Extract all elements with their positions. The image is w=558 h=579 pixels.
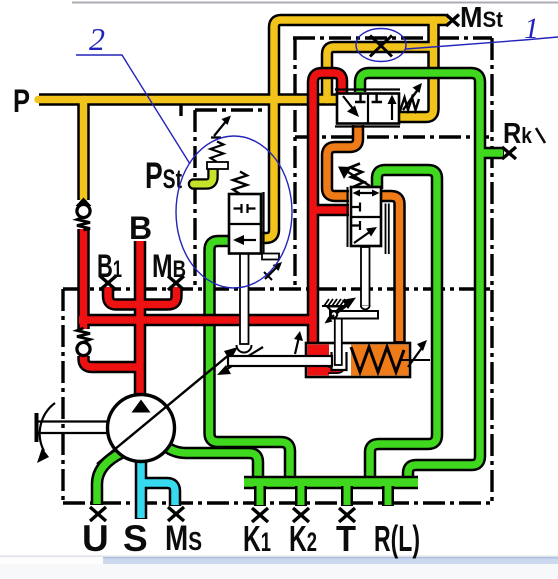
left cell blocked port [355,94,366,102]
valve3 lower adjust arrow [265,266,278,279]
wire pump case drain to manifold [162,443,258,480]
valve2 pilot arrow [348,172,370,186]
port Rk [502,147,516,159]
pump circle [108,395,175,462]
wire gold drop to check valve [77,100,90,201]
port B1 [100,276,116,290]
wire red below check valve 1 [77,229,90,329]
check valve lower [77,328,90,356]
port MB [168,276,184,290]
svg-text:2: 2 [89,21,105,57]
valve3 main spring [233,172,247,195]
border bottom edge [63,501,492,504]
pilot spring [211,142,224,163]
wire PSt pilot pipe [194,169,214,184]
wire P main [39,93,340,106]
adjust tick and arrow [401,359,430,361]
pilot adjust arrow [211,120,227,138]
piston up arrow [295,337,299,354]
port K2 [293,508,309,522]
valve1 spring [400,98,419,112]
wire green valve2 loop [370,170,437,480]
blocked ports [351,203,360,212]
leader line 1 [406,37,558,49]
callout ellipse 1 [356,29,406,62]
wire green valve3 drain [210,241,291,480]
wire red below check valve 2 to B line [84,356,143,367]
box A left edge [193,110,196,285]
svg-text:T: T [336,518,356,559]
port K1 [252,508,268,522]
inner boundary line [295,135,489,138]
valve1 body [337,94,399,124]
short tick below P line [179,104,182,116]
port U [90,507,106,521]
pump drive shaft [37,413,109,442]
pilot plate [207,162,228,169]
bottom scrollbar band [0,556,558,558]
valve2 spring [350,164,364,188]
wire green manifold bar [244,476,418,490]
wire red branch to valve2 [313,204,349,217]
port MS [168,507,184,521]
pump flow triangle [132,400,151,413]
svg-text:1: 1 [524,12,539,45]
bottom cell arrow [354,231,371,243]
svg-text:B: B [129,210,152,246]
wire B line [134,241,147,396]
pump variable arrow [97,354,230,464]
bottom cell arrow [241,239,256,241]
left cell arrow [343,96,354,110]
wire green valve1 to right trunk down to manifold [360,73,480,480]
svg-text:U: U [82,518,109,559]
valve1 adjust arrow [403,88,419,110]
mid vertical boundary [293,38,296,285]
long bar lever [228,356,332,366]
foot plate [262,254,279,260]
border right edge [490,38,493,503]
svg-text:Rk: Rk [503,118,533,150]
svg-text:R(L): R(L) [374,518,420,559]
bottom plate lines [335,125,400,127]
wire valve1 to valve2 orange [327,125,358,196]
piston cup [332,352,347,370]
wire Rk stub [480,147,504,160]
wire MS branch [144,483,175,506]
wire valve2 to spring box orange [380,196,400,342]
wire main red riser [313,73,342,346]
lever bar [330,311,378,319]
check valve top (P to B side) [76,198,92,231]
top cell blocked ports [234,204,242,213]
right cell up arrow [391,101,393,120]
tilt arrow [227,347,263,369]
big arrow [336,304,348,313]
ports boundary line [63,287,492,290]
svg-text:S: S [123,518,148,559]
port MSt [446,15,459,27]
wire manifold stubs K1 K2 T R(L) [260,486,388,506]
border top edge [293,36,492,39]
wire MSt drop to valve1 spring side [398,20,434,117]
hatched pivot [322,305,348,307]
wire suction S [135,460,148,519]
small arrow [329,315,334,320]
right cell blocked port [372,94,382,102]
feedback rod [335,318,342,365]
top grey rule [72,2,558,4]
spring in box [351,347,404,372]
box A top edge [195,108,265,111]
port T [339,508,355,522]
wire B1 MB manifold [108,287,177,305]
svg-text:MSt: MSt [460,2,504,34]
svg-text:P: P [13,83,30,119]
callout ellipse 2 [176,136,292,288]
wire MSt line + drop to valve3 [261,20,446,238]
top plate lines [335,88,400,90]
Rk edge tick [536,128,545,143]
valve2 push rod [361,247,370,306]
control piston body [306,318,430,377]
wire pump U drain [97,453,121,505]
double arrow top cell [357,192,375,194]
valve3 push rod [240,253,249,344]
wire long red rail [79,314,313,327]
wire P riser to throttle line [327,47,433,100]
side rails [347,187,349,247]
red pipe inside [328,364,342,370]
border left edge [61,289,64,503]
leader line 2 [76,55,190,164]
rotation arrow [40,403,55,451]
side plate [262,192,264,257]
